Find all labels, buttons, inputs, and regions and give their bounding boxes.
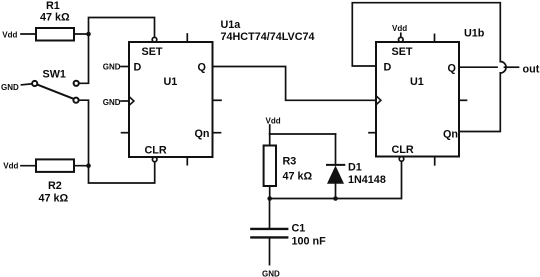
wire GND to SW1 pole [22, 84, 32, 85]
wire Vdd to SET bubble U1b [400, 33, 402, 37]
node GND (C1 bottom) [262, 269, 280, 277]
svg-text:GND: GND [1, 83, 19, 92]
label U1a / part number [221, 19, 315, 43]
wire Q of U1a to clock of U1b [213, 67, 376, 101]
node GND (switch pole) [1, 83, 19, 92]
svg-text:Vdd: Vdd [2, 30, 17, 39]
wire Vdd to R2 [21, 165, 36, 167]
svg-text:1N4148: 1N4148 [348, 174, 386, 186]
svg-text:Qn: Qn [443, 129, 458, 141]
junction node A (R1 / switch upper / SET) [86, 32, 91, 37]
junction node C (R3 / C1 / wire) [267, 196, 272, 201]
svg-text:47 kΩ: 47 kΩ [40, 12, 70, 24]
pin CLR bubble U1b [399, 157, 404, 162]
svg-text:100 nF: 100 nF [292, 236, 327, 248]
pin Qn stub U1a [213, 132, 221, 134]
svg-text:CLR: CLR [145, 145, 167, 157]
svg-text:74HCT74/74LVC74: 74HCT74/74LVC74 [221, 31, 315, 43]
clock wedge U1a [130, 97, 134, 105]
wire R1 to node A [74, 33, 89, 35]
svg-text:R3: R3 [283, 156, 297, 168]
capacitor C1 [269, 199, 271, 229]
svg-text:SW1: SW1 [43, 69, 66, 81]
flip-flop U1b body [376, 42, 459, 157]
svg-text:CLR: CLR [392, 144, 414, 156]
svg-text:D: D [384, 62, 392, 74]
label U1b [464, 27, 485, 39]
resistor R3 [264, 146, 276, 187]
wire Qn of U1b feedback to D of U1b [459, 73, 500, 132]
resistor R2 [36, 159, 74, 172]
junction node B (R2 / switch lower / CLR) [86, 163, 91, 168]
svg-text:Vdd: Vdd [266, 116, 281, 125]
svg-text:47 kΩ: 47 kΩ [39, 193, 69, 205]
svg-text:SET: SET [392, 46, 413, 58]
svg-text:U1b: U1b [464, 27, 485, 39]
svg-text:GND: GND [103, 98, 121, 107]
wire node A up and across to SET [89, 18, 155, 38]
pin stub left U1b [369, 132, 376, 134]
pin stub bottom-right U1b [434, 157, 436, 165]
wire node A down to switch upper contact [79, 34, 88, 83]
resistor R1 [36, 28, 74, 41]
svg-text:D: D [134, 62, 142, 74]
wire switch lower contact to node B [79, 100, 89, 166]
wire Vdd rail to D1 [270, 133, 336, 135]
junction node C2 (D1 / wire) [333, 196, 338, 201]
wire R3 bottom to node C [269, 186, 271, 199]
node Vdd (top left) [2, 30, 17, 39]
svg-text:47 kΩ: 47 kΩ [283, 171, 313, 183]
wire GND to D pin U1a [121, 66, 129, 68]
svg-text:out: out [523, 64, 540, 76]
node Vdd (R3 / D1) [266, 116, 281, 125]
svg-text:Vdd: Vdd [392, 24, 407, 33]
wire node C to CLR bubble U1b [270, 161, 402, 198]
svg-text:D1: D1 [348, 162, 362, 174]
pin SET bubble U1b [399, 37, 404, 42]
svg-text:Q: Q [448, 63, 456, 75]
clock wedge U1b [377, 97, 381, 105]
wire node B to CLR bubble [89, 162, 155, 183]
svg-text:Qn: Qn [195, 128, 210, 140]
wire Q of U1b to out [459, 66, 497, 68]
svg-text:C1: C1 [292, 223, 306, 235]
svg-text:R1: R1 [46, 0, 60, 12]
svg-text:GND: GND [103, 62, 121, 71]
node GND (U1a clock input) [103, 98, 121, 107]
node out [523, 64, 540, 76]
pin SET bubble U1a [152, 37, 157, 42]
pin stub bottom-right U1a [186, 157, 188, 165]
svg-text:R2: R2 [48, 180, 62, 192]
wire hop (feedback vertical hops over Q-out wire) [500, 62, 506, 74]
svg-text:U1: U1 [410, 76, 424, 88]
switch SW1 [32, 81, 79, 103]
node GND (U1a D input) [103, 62, 121, 71]
svg-text:SET: SET [142, 46, 163, 58]
wire rail to R3 top [269, 134, 271, 146]
svg-text:GND: GND [262, 269, 280, 277]
wire Vdd down to rail [269, 125, 271, 134]
flip-flop U1a body [129, 42, 213, 157]
diode D1 [335, 134, 337, 165]
wire GND to clock pin U1a [121, 100, 129, 102]
wire R2 to node B [74, 165, 89, 167]
svg-text:Vdd: Vdd [3, 162, 18, 171]
pin stub top-right U1b [434, 34, 436, 42]
pin stub right-middle U1b [459, 99, 467, 101]
pin stub top-right U1a [186, 34, 188, 42]
svg-text:U1: U1 [164, 76, 178, 88]
node Vdd (bottom left) [3, 162, 18, 171]
pin CLR bubble U1a [152, 157, 157, 162]
node Vdd (U1b SET) [392, 24, 407, 33]
pin stub left U1a [122, 132, 129, 134]
pin stub right-middle U1a [213, 99, 222, 101]
svg-text:Q: Q [198, 62, 206, 74]
wire Vdd to R1 [21, 33, 36, 35]
svg-text:U1a: U1a [221, 19, 242, 31]
